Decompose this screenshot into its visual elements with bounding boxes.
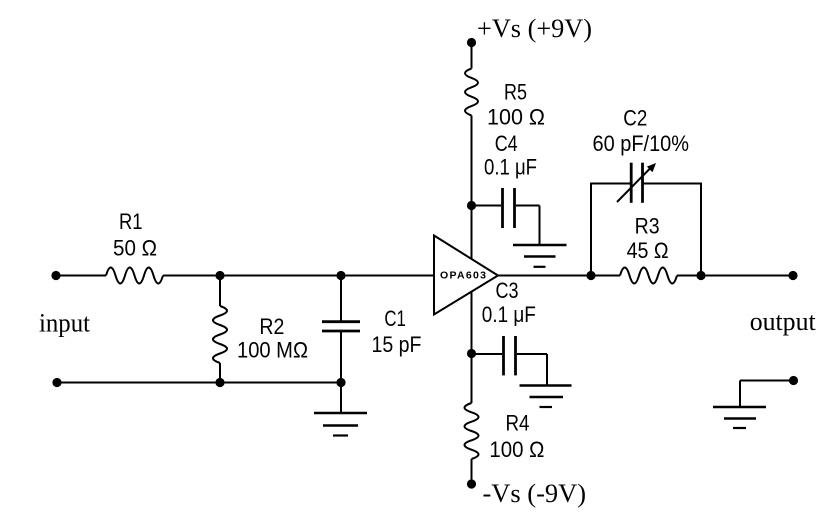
svg-text:-Vs (-9V): -Vs (-9V) (483, 479, 587, 508)
svg-text:input: input (39, 309, 91, 338)
svg-text:C2: C2 (623, 106, 647, 131)
svg-text:45 Ω: 45 Ω (627, 238, 669, 263)
svg-text:R2: R2 (259, 314, 284, 339)
svg-text:60 pF/10%: 60 pF/10% (593, 131, 690, 156)
svg-text:0.1 μF: 0.1 μF (482, 302, 536, 327)
svg-text:R5: R5 (504, 80, 527, 105)
svg-text:output: output (750, 307, 817, 336)
svg-text:R3: R3 (635, 214, 660, 239)
svg-text:100 MΩ: 100 MΩ (237, 338, 308, 363)
svg-text:+Vs (+9V): +Vs (+9V) (477, 14, 592, 43)
svg-text:100 Ω: 100 Ω (487, 105, 545, 130)
svg-text:R1: R1 (119, 209, 143, 234)
svg-text:C4: C4 (495, 131, 518, 156)
svg-text:R4: R4 (506, 411, 530, 436)
svg-text:C1: C1 (384, 306, 406, 331)
svg-text:0.1 μF: 0.1 μF (484, 155, 537, 180)
svg-text:15 pF: 15 pF (372, 332, 422, 357)
svg-text:OPA603: OPA603 (440, 270, 486, 282)
svg-text:C3: C3 (496, 278, 519, 303)
svg-text:50 Ω: 50 Ω (113, 236, 157, 261)
svg-text:100 Ω: 100 Ω (489, 437, 544, 462)
